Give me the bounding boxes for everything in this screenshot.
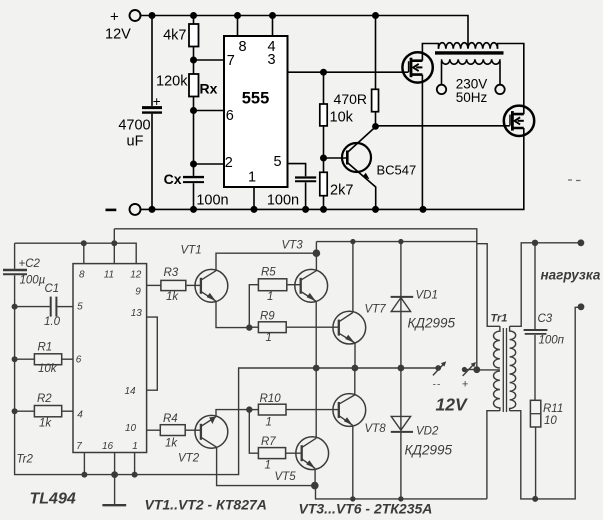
svg-text:1: 1 [132, 441, 138, 452]
transistor VT2 [195, 415, 228, 448]
diode VD2 [400, 368, 402, 499]
svg-text:R1: R1 [38, 341, 53, 353]
node mid rail VT3/VT5 [313, 365, 320, 372]
svg-text:5: 5 [77, 302, 83, 313]
svg-text:555: 555 [242, 90, 270, 108]
node pin3 junction [320, 69, 327, 76]
node C1 junction [12, 304, 18, 310]
svg-text:1: 1 [248, 170, 256, 186]
svg-text:Tr2: Tr2 [17, 454, 34, 466]
svg-text:10k: 10k [330, 110, 354, 126]
transformer T1 secondary winding [442, 59, 501, 64]
svg-text:VD2: VD2 [416, 426, 439, 438]
svg-text:9: 9 [135, 286, 141, 297]
wire secondary left lead [441, 61, 443, 85]
wire VT3 collector [315, 242, 317, 271]
svg-text:16: 16 [102, 441, 114, 452]
svg-text:10k: 10k [38, 363, 58, 375]
terminal + (12V input) [130, 10, 141, 21]
transformer Tr1 left winding [494, 326, 500, 368]
svg-text:VT3...VT6 - 2ТК235А: VT3...VT6 - 2ТК235А [299, 501, 433, 517]
node rail-470R junction [372, 12, 379, 19]
op-amp U1 555 timer box [224, 36, 288, 187]
svg-text:R7: R7 [261, 436, 276, 448]
svg-text:4700: 4700 [118, 118, 150, 134]
transformer T1 primary winding [439, 43, 498, 49]
svg-text:TL494: TL494 [30, 491, 76, 508]
node emitters junction [311, 482, 319, 490]
svg-text:нагрузка: нагрузка [541, 268, 601, 283]
node base junction [320, 155, 327, 162]
svg-text:+: + [110, 9, 119, 26]
svg-text:6: 6 [226, 108, 234, 124]
node gnd-2k7 junction [320, 206, 327, 213]
svg-text:1k: 1k [166, 291, 179, 303]
wire VT2 collector [217, 447, 315, 485]
svg-text:8: 8 [238, 39, 246, 55]
wire VT1 emitter [216, 301, 249, 327]
svg-text:R10: R10 [260, 393, 282, 405]
svg-text:R2: R2 [37, 393, 52, 405]
node mid rail VT7/VT8 [352, 365, 359, 372]
svg-text:2: 2 [225, 155, 233, 171]
IC U2 TL494 box [73, 264, 147, 453]
resistor 10k [323, 72, 325, 104]
svg-text:VT2: VT2 [178, 453, 200, 465]
wire pin 1 down [134, 453, 136, 475]
resistor R2 [15, 410, 35, 412]
svg-text:+: + [462, 379, 469, 391]
svg-text:VT8: VT8 [365, 423, 387, 435]
wire down to pin2 [193, 111, 195, 165]
svg-text:Rx: Rx [200, 81, 218, 97]
svg-text:7: 7 [227, 53, 235, 69]
svg-text:uF: uF [127, 134, 144, 150]
wire left rail top [14, 243, 16, 269]
node pin11 top [111, 240, 117, 246]
node pin8 top [81, 240, 87, 246]
resistor R10 [249, 409, 258, 411]
svg-text:12V: 12V [436, 395, 468, 415]
resistor 2k7 [323, 158, 325, 172]
node gnd-cap junction [149, 206, 156, 213]
wire VT8 collector [354, 368, 356, 395]
wire filter cap branch [151, 16, 153, 106]
svg-text:BC547: BC547 [377, 163, 417, 178]
text labels top circuit [105, 9, 488, 210]
node rail-4k7 junction [190, 12, 197, 19]
node pin2 junction [190, 161, 197, 168]
svg-text:C1: C1 [45, 283, 60, 295]
wire center tap [477, 369, 500, 371]
resistor R11 [530, 400, 540, 427]
svg-text:R3: R3 [164, 267, 179, 279]
node rail-pin8 junction [234, 12, 241, 19]
transistor Q3 BC547 [342, 143, 371, 172]
wire collectors rail [316, 241, 476, 243]
terminal load top [578, 239, 585, 246]
svg-text:100n: 100n [267, 193, 299, 209]
svg-text:1: 1 [265, 460, 271, 472]
label pin numbers [76, 269, 143, 452]
wire pin 7 down [83, 453, 85, 475]
node R1 junction [12, 356, 18, 362]
node pin7 junction [190, 57, 197, 64]
svg-text:14: 14 [124, 386, 136, 397]
svg-text:100п: 100п [539, 335, 565, 347]
node VT7 rail [350, 239, 355, 244]
node gnd-Q1source junction [420, 206, 427, 213]
wire pin 4 [272, 16, 274, 37]
wire pin 8 up [83, 243, 85, 263]
svg-text:Cx: Cx [164, 171, 182, 187]
wire to pin 6 [194, 110, 225, 112]
transformer T1 core [435, 51, 504, 54]
svg-text:10: 10 [544, 415, 557, 427]
terminal 230V right [495, 85, 504, 94]
node VT8 bus [350, 496, 355, 501]
svg-text:R11: R11 [543, 403, 563, 415]
node gnd-pin1 junction [251, 206, 258, 213]
wire VT7 emitter [354, 343, 356, 368]
wire pin 5 C1 [15, 306, 50, 308]
svg-text:100n: 100n [196, 193, 228, 209]
capacitor 100n (pin5) [295, 176, 316, 178]
svg-text:5: 5 [273, 154, 281, 170]
svg-text:R4: R4 [163, 413, 178, 425]
wire bottom rail [141, 135, 524, 209]
svg-text:100µ: 100µ [20, 275, 46, 287]
wire VT5 emitter [314, 468, 316, 485]
wire Q1 drain to transformer [422, 44, 438, 53]
svg-text:C3: C3 [538, 313, 553, 325]
svg-text:11: 11 [104, 269, 114, 280]
svg-text:+C2: +C2 [19, 258, 41, 270]
transformer Tr1 core [502, 328, 504, 412]
resistor R5 [258, 279, 286, 291]
svg-text:7: 7 [76, 441, 82, 452]
wire R7 branch [249, 410, 258, 454]
svg-text:1: 1 [267, 291, 273, 303]
wire left rail [15, 275, 439, 474]
terminal load bottom [578, 303, 585, 310]
connector arrow plus [463, 363, 475, 376]
wire plus stub [464, 369, 477, 371]
node rail-cap junction [149, 12, 156, 19]
diode VD1 [400, 242, 402, 368]
wire to pin 7 [194, 59, 225, 61]
svg-text:1k: 1k [165, 438, 178, 450]
node gnd-100n junction [302, 206, 309, 213]
node pin6 junction [190, 107, 197, 114]
wire VT3 emitter [315, 301, 317, 368]
svg-text:6: 6 [76, 354, 82, 365]
node center tap junction [473, 366, 480, 373]
speck marks [568, 179, 581, 182]
svg-text:2k7: 2k7 [330, 183, 353, 199]
node R5/R9 junction [246, 324, 252, 330]
node gnd-Cx junction [190, 206, 197, 213]
transistor VT5 [296, 437, 329, 470]
wire pin 1 [253, 187, 255, 209]
svg-text:VT1: VT1 [181, 244, 202, 256]
resistor 470R [375, 16, 377, 90]
node R2 junction [12, 408, 18, 414]
wire VT2 emitter [216, 410, 249, 417]
resistor R7 [258, 448, 285, 459]
svg-text:13: 13 [131, 308, 143, 319]
svg-text:8: 8 [79, 269, 85, 280]
svg-text:4: 4 [77, 409, 83, 420]
transistor VT3 [295, 269, 328, 302]
resistor R9 [249, 326, 258, 328]
wire emitters bus [316, 486, 487, 499]
wire pin 10 [147, 429, 161, 431]
svg-text:1: 1 [266, 332, 272, 344]
capacitor 4700uF [142, 106, 162, 109]
wire to pin 2 [194, 163, 225, 165]
svg-text:120k: 120k [156, 74, 188, 90]
wire R5 branch [249, 285, 258, 328]
svg-text:КД2995: КД2995 [408, 316, 456, 331]
wire pin 8 [237, 16, 239, 37]
wire pin 5 [288, 164, 306, 177]
wire Q1 source [421, 82, 423, 209]
transistor VT8 [333, 394, 366, 427]
svg-text:+: + [153, 94, 161, 109]
node pin7 bus [81, 472, 87, 478]
wire VT8 emitter [352, 425, 354, 499]
svg-text:VT1..VT2 - КТ827А: VT1..VT2 - КТ827А [145, 497, 267, 513]
wire gate drive Q2 [376, 125, 510, 127]
svg-text:50Hz: 50Hz [456, 90, 488, 105]
text labels bottom circuit [17, 239, 601, 516]
svg-text:10: 10 [125, 423, 137, 434]
node VT3 collector junction [313, 249, 321, 257]
transistor VT7 [333, 311, 366, 344]
node R10/R7 junction [246, 406, 252, 412]
svg-text:VT3: VT3 [282, 239, 304, 251]
node gnd-emitter junction [372, 206, 379, 213]
ground [114, 475, 116, 506]
transistor Q1 MOSFET [402, 52, 432, 82]
capacitor C2 100u [3, 269, 27, 271]
wire pin 16 down [114, 453, 116, 475]
svg-text:VT7: VT7 [365, 303, 387, 315]
wire top feed to IC [15, 243, 137, 263]
wire pin 3 output [288, 71, 409, 73]
transistor VT1 [195, 269, 228, 302]
wire long top rail to center tap [114, 229, 477, 370]
wire secondary bottom lead and load return [510, 307, 581, 499]
wire transformer top-left feed [477, 244, 500, 327]
svg-text:VT5: VT5 [275, 471, 297, 483]
wire top rail [141, 16, 469, 46]
svg-text:КД2995: КД2995 [405, 443, 453, 458]
node gate2 junction [372, 123, 379, 130]
node VD1 rail [398, 239, 403, 244]
wire VT5 collector [315, 368, 317, 438]
resistor 4k7 [193, 16, 195, 25]
capacitor C1 [50, 297, 52, 317]
wire secondary right lead [499, 61, 501, 85]
wire secondary top lead [510, 243, 581, 326]
capacitor C3 [534, 243, 536, 329]
wire primary right lead [498, 44, 524, 108]
svg-text:1: 1 [266, 417, 272, 429]
wire VT7 collector [352, 242, 354, 313]
resistor 120k Rx [193, 60, 195, 74]
resistor R3 [161, 280, 186, 290]
svg-text:Tr1: Tr1 [491, 312, 508, 324]
terminal - (0V) [130, 204, 141, 215]
resistor R4 [160, 425, 185, 436]
terminal 230V left [437, 85, 446, 94]
svg-text:4k7: 4k7 [163, 28, 186, 44]
svg-text:12V: 12V [105, 27, 131, 43]
node pin16 bus [111, 471, 118, 478]
wire pin 9 [147, 284, 161, 286]
svg-text:--: -- [433, 380, 442, 391]
capacitor Cx [193, 164, 195, 176]
node R11 bus [532, 496, 538, 502]
transistor Q2 MOSFET [504, 106, 534, 136]
node mid rail VD1/VD2 [398, 365, 405, 372]
transformer Tr1 right winding [510, 326, 516, 410]
label minus [106, 209, 117, 212]
wire pin 11 up [113, 229, 115, 264]
connector arrow minus [433, 362, 445, 375]
svg-text:3: 3 [267, 52, 275, 68]
node pin1 bus [132, 472, 138, 478]
svg-text:VD1: VD1 [416, 290, 438, 302]
wire VT1 collector [216, 253, 316, 271]
node VD2 bus [398, 496, 403, 501]
resistor R1 [15, 358, 35, 360]
node rail-pin4 junction [269, 12, 276, 19]
svg-text:R5: R5 [261, 267, 276, 279]
svg-text:1k: 1k [39, 418, 52, 430]
wire primary bottom lead [487, 411, 500, 499]
svg-text:470R: 470R [334, 91, 367, 107]
svg-text:1.0: 1.0 [44, 316, 61, 328]
svg-text:12: 12 [130, 269, 142, 280]
wire pin13-pin14 loop [147, 317, 158, 390]
node C3 top junction [532, 240, 538, 246]
svg-text:R9: R9 [260, 311, 275, 323]
